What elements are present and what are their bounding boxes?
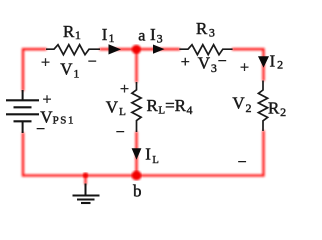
wire: middle branch lower (RL to node b) bbox=[135, 132, 137, 176]
wire: top right segment + right upper vertical bbox=[232, 49, 264, 81]
svg-text:I1: I1 bbox=[102, 25, 115, 45]
wire: bottom horizontal bbox=[22, 174, 264, 176]
battery VPS1 bbox=[6, 90, 39, 133]
svg-text:a: a bbox=[138, 28, 145, 45]
ground bbox=[73, 184, 100, 204]
wire: ground stub bbox=[84, 176, 86, 185]
svg-text:b: b bbox=[133, 181, 142, 200]
wire: top middle (R1 to R3) through node a bbox=[100, 48, 181, 50]
wire: left lower vertical bbox=[22, 133, 24, 177]
svg-text:−: − bbox=[116, 124, 125, 141]
resistor R2 bbox=[258, 81, 267, 132]
svg-text:I3: I3 bbox=[150, 25, 163, 45]
svg-text:−: − bbox=[218, 53, 227, 70]
ground junction dot bbox=[83, 173, 88, 178]
wire: left upper + top-left segment to R1 bbox=[23, 49, 47, 91]
resistor RL (load) bbox=[132, 82, 141, 132]
node b junction dot bbox=[132, 171, 142, 181]
svg-text:+: + bbox=[120, 81, 129, 98]
svg-text:V1: V1 bbox=[60, 60, 79, 81]
svg-text:+: + bbox=[181, 54, 190, 71]
svg-text:R2: R2 bbox=[268, 99, 286, 120]
svg-text:+: + bbox=[42, 92, 51, 109]
current arrow I2 bbox=[258, 56, 269, 67]
svg-text:−: − bbox=[88, 53, 97, 70]
svg-text:VPS1: VPS1 bbox=[40, 108, 75, 127]
resistor R3 bbox=[179, 45, 232, 55]
node a junction dot bbox=[132, 45, 141, 54]
wire: right lower vertical bbox=[262, 131, 264, 177]
svg-text:R3: R3 bbox=[196, 19, 215, 40]
resistor R1 bbox=[46, 45, 100, 55]
svg-text:VL: VL bbox=[106, 97, 126, 118]
svg-text:IL: IL bbox=[145, 144, 158, 166]
svg-text:V3: V3 bbox=[198, 53, 217, 75]
svg-text:I2: I2 bbox=[270, 51, 284, 71]
svg-text:R1: R1 bbox=[63, 22, 81, 42]
wire: middle branch upper (node a to RL) bbox=[135, 49, 137, 82]
svg-text:V2: V2 bbox=[232, 93, 251, 115]
svg-text:−: − bbox=[36, 121, 45, 138]
svg-text:RL=R4: RL=R4 bbox=[147, 96, 193, 117]
svg-text:+: + bbox=[41, 55, 50, 72]
current arrow I3 bbox=[153, 45, 165, 54]
svg-text:−: − bbox=[237, 154, 246, 171]
current arrow I1 bbox=[109, 44, 122, 54]
current arrow IL bbox=[132, 148, 142, 159]
svg-text:+: + bbox=[240, 60, 249, 77]
